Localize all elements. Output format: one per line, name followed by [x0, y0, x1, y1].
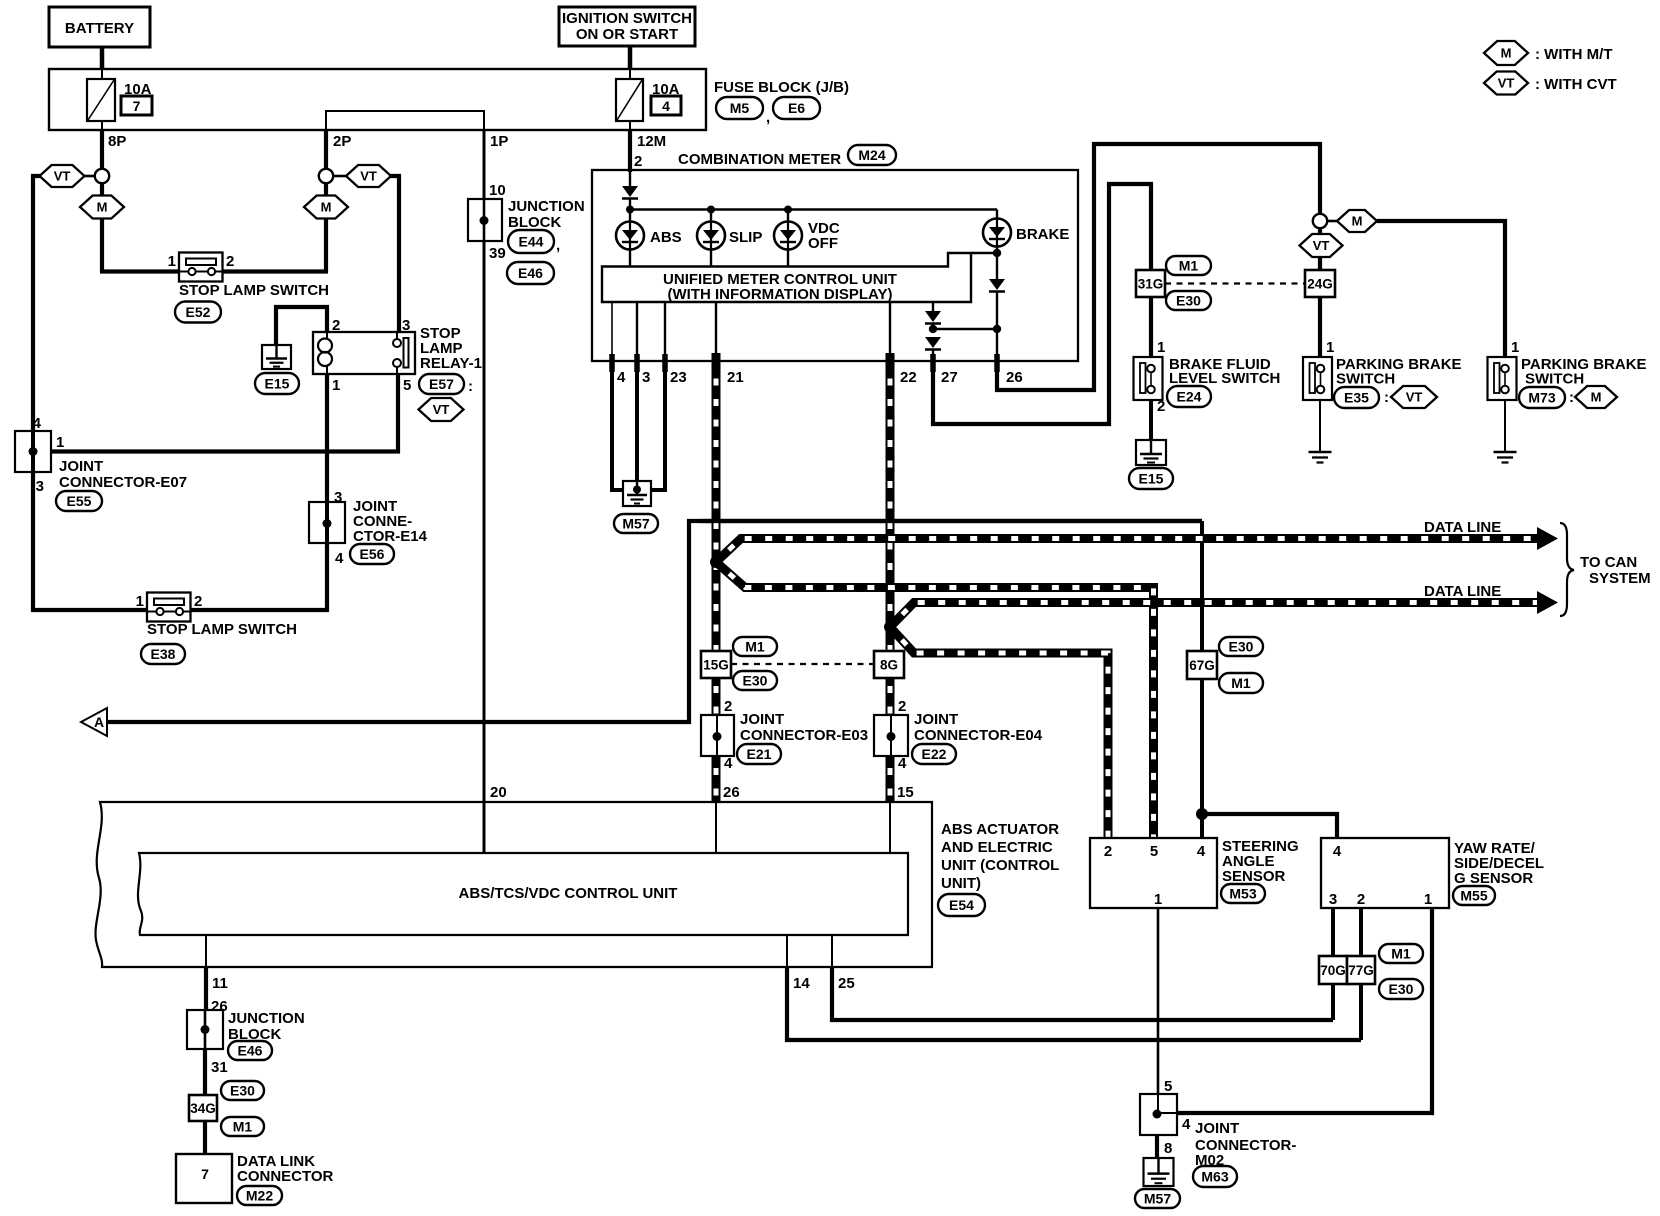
wire A arrow line	[106, 521, 1202, 722]
junction block E44 E46 1P	[468, 199, 502, 241]
svg-text:E54: E54	[949, 897, 974, 913]
svg-text:2: 2	[1357, 891, 1365, 908]
stop lamp switch E52	[179, 253, 223, 282]
ground M73	[1494, 451, 1517, 454]
svg-text:E56: E56	[360, 546, 385, 562]
fuse link 34G	[189, 1095, 217, 1121]
connector E35	[1334, 387, 1379, 408]
svg-text:2: 2	[332, 317, 340, 334]
svg-text:VT: VT	[54, 169, 71, 184]
svg-text:M55: M55	[1460, 888, 1487, 904]
wire meter pin 4 to ground M57	[612, 361, 624, 490]
svg-text:26: 26	[1006, 369, 1023, 386]
svg-text:3: 3	[642, 369, 650, 386]
svg-text:BATTERY: BATTERY	[65, 20, 134, 37]
svg-text:VT: VT	[360, 169, 377, 184]
svg-text:4: 4	[617, 369, 626, 386]
wire M branch to parking brake switch M73	[1377, 221, 1505, 364]
connector E30 67G	[1219, 637, 1263, 656]
svg-text:M5: M5	[730, 100, 750, 116]
fuse link 67G	[1187, 651, 1217, 679]
svg-text:M: M	[1352, 214, 1363, 229]
arrow A to other sheet	[81, 708, 107, 736]
tag M M73	[1575, 386, 1617, 408]
wire branch to yaw rate sensor pin 4	[1202, 814, 1337, 838]
svg-text:3: 3	[402, 317, 410, 334]
ABS/TCS/VDC control unit box	[138, 853, 908, 935]
svg-text:M: M	[97, 200, 108, 215]
svg-text:4: 4	[1197, 843, 1206, 860]
svg-text:CTOR-E14: CTOR-E14	[353, 528, 428, 545]
svg-text:STOP LAMP SWITCH: STOP LAMP SWITCH	[147, 621, 297, 638]
wire meter pin 27 to 31G brake fluid level switch	[933, 184, 1151, 424]
svg-text::: :	[468, 378, 473, 395]
fuse link 77G	[1347, 956, 1375, 984]
connector M73	[1519, 387, 1565, 408]
ground E35	[1309, 451, 1332, 454]
svg-text:E30: E30	[1389, 981, 1414, 997]
svg-text:70G: 70G	[1320, 963, 1346, 978]
svg-text:7: 7	[133, 98, 141, 114]
connector E46	[507, 262, 554, 284]
fuse link 8G	[874, 651, 904, 678]
svg-text:DATA LINE: DATA LINE	[1424, 583, 1501, 600]
wire meter pin 23 to ground M57	[650, 361, 665, 490]
connector E30 34G	[221, 1081, 264, 1100]
svg-text:8P: 8P	[108, 133, 126, 150]
svg-text:4: 4	[1182, 1116, 1191, 1133]
wire unified unit pin 3	[636, 302, 638, 361]
svg-text:CONNECTOR-E03: CONNECTOR-E03	[740, 727, 868, 744]
lamp VDC OFF warning	[787, 210, 789, 223]
svg-text:(WITH INFORMATION DISPLAY): (WITH INFORMATION DISPLAY)	[668, 286, 893, 303]
svg-text:IGNITION SWITCH: IGNITION SWITCH	[562, 10, 692, 27]
connector M5	[716, 97, 763, 119]
svg-text:E52: E52	[186, 304, 211, 320]
connector E57	[419, 374, 464, 394]
tag M parking brake	[1337, 210, 1377, 232]
connector E30 15G	[733, 671, 777, 690]
svg-text:BLOCK: BLOCK	[508, 214, 561, 231]
wire pin 20 inside ABS box	[483, 802, 486, 853]
stop lamp switch E38	[147, 593, 191, 622]
fuse link 24G	[1305, 270, 1335, 297]
wire diode link	[933, 328, 997, 330]
svg-text:8: 8	[1164, 1140, 1172, 1157]
node steering sensor pin 4	[1196, 808, 1208, 820]
data line lower to CAN	[890, 603, 1540, 628]
node bus VDC	[784, 206, 792, 214]
svg-text:: WITH M/T: : WITH M/T	[1535, 46, 1612, 63]
svg-text:E6: E6	[788, 100, 805, 116]
svg-text:G SENSOR: G SENSOR	[1454, 870, 1533, 887]
wire ABS pin 11 to junction block E46	[205, 935, 207, 967]
svg-text:1: 1	[1157, 339, 1165, 356]
svg-text:JUNCTION: JUNCTION	[508, 198, 585, 215]
svg-text:20: 20	[490, 784, 507, 801]
svg-text:SYSTEM: SYSTEM	[1589, 570, 1651, 587]
svg-text:4: 4	[33, 415, 42, 432]
wire unified unit pin 23	[664, 302, 666, 361]
ground E15 relay	[262, 345, 291, 369]
dashed link 31G-24G	[1165, 282, 1305, 284]
svg-text:5: 5	[1150, 843, 1158, 860]
connector E55	[56, 491, 102, 511]
svg-text:2: 2	[1104, 843, 1112, 860]
fuse link 31G	[1136, 270, 1165, 297]
lamp SLIP warning	[710, 210, 712, 223]
svg-text:E35: E35	[1344, 390, 1369, 406]
battery B1	[49, 7, 150, 47]
svg-text:M: M	[321, 200, 332, 215]
svg-text:VT: VT	[433, 402, 450, 417]
svg-text:4: 4	[724, 755, 733, 772]
svg-text:VT: VT	[1498, 76, 1515, 91]
data line branch to steering sensor pin 5	[716, 562, 1154, 838]
svg-text:M1: M1	[233, 1119, 253, 1135]
svg-text:,: ,	[766, 109, 770, 126]
connector E21	[737, 744, 781, 764]
meter pin stubs	[609, 354, 615, 372]
wire 67G line down to steering angle sensor pin 4	[1200, 521, 1204, 838]
svg-text:1: 1	[56, 434, 64, 451]
wire junction bus 2P-1P inside fuse block	[326, 111, 484, 130]
fuse link 15G	[701, 651, 731, 678]
tag M with MT 2P	[304, 196, 348, 219]
wire meter pin 3 to ground M57	[635, 361, 639, 482]
svg-text:E38: E38	[151, 646, 176, 662]
wire 8P to stop lamp switch E52 pin 1	[100, 269, 179, 273]
svg-text:M1: M1	[1391, 946, 1411, 962]
wire connector circle to parking brake switch E35	[1318, 228, 1322, 364]
wire relay pin 1 to joint connector E14 pin 3	[325, 374, 329, 502]
svg-text:4: 4	[898, 755, 907, 772]
svg-text:2: 2	[634, 153, 642, 170]
svg-text:26: 26	[723, 784, 740, 801]
svg-text:UNIT): UNIT)	[941, 875, 981, 892]
svg-text:39: 39	[489, 245, 506, 262]
fuse F2 10A	[616, 79, 643, 121]
fuse link 70G	[1319, 956, 1347, 984]
tag VT relay	[419, 398, 464, 421]
tag VT with CVT 8P	[40, 165, 85, 187]
svg-text:E30: E30	[230, 1083, 255, 1099]
svg-text:E30: E30	[1229, 639, 1254, 655]
svg-text:JOINT: JOINT	[740, 711, 784, 728]
wire 34G to data link connector	[203, 1121, 207, 1154]
dashed link 15G-8G	[731, 663, 874, 665]
svg-text:M1: M1	[1179, 258, 1199, 274]
wire meter lamp bus	[630, 208, 997, 210]
connector E30 yaw	[1379, 979, 1423, 999]
wire pin 26 inside ABS box	[715, 802, 717, 853]
wire 1P to ABS pin 20	[483, 130, 486, 853]
svg-text:27: 27	[941, 369, 958, 386]
wire VT 8P down to joint connector E07 pin 4	[33, 176, 40, 431]
svg-text:1: 1	[136, 593, 144, 610]
ground E15 brake fluid	[1136, 440, 1166, 465]
data line vertical from meter pin 21	[712, 361, 721, 802]
svg-text:JOINT: JOINT	[914, 711, 958, 728]
svg-text:2: 2	[194, 593, 202, 610]
connector M1 34G	[221, 1117, 264, 1136]
svg-text:VT: VT	[1313, 238, 1330, 253]
svg-text:M57: M57	[1144, 1191, 1171, 1207]
wire unified unit pin 22	[889, 302, 891, 361]
connector E15 relay	[255, 373, 299, 394]
connector M63	[1193, 1166, 1237, 1187]
svg-text:TO CAN: TO CAN	[1580, 554, 1637, 571]
connector circle 8P	[95, 169, 109, 183]
svg-text:E46: E46	[238, 1043, 263, 1059]
steering angle sensor M53	[1090, 838, 1217, 908]
svg-text:,: ,	[556, 237, 560, 254]
arrowhead data line upper	[1537, 527, 1558, 550]
svg-text:M22: M22	[246, 1188, 273, 1204]
tag VT with CVT 2P	[346, 165, 391, 187]
svg-text:: WITH CVT: : WITH CVT	[1535, 76, 1617, 93]
svg-text:E30: E30	[1176, 293, 1201, 309]
connector M22	[237, 1186, 282, 1205]
data link connector M22	[176, 1154, 232, 1203]
svg-text:UNIT (CONTROL: UNIT (CONTROL	[941, 857, 1059, 874]
svg-text:SWITCH: SWITCH	[1525, 371, 1584, 388]
svg-text:M24: M24	[858, 147, 885, 163]
svg-text::: :	[1569, 389, 1574, 406]
svg-text:2: 2	[724, 698, 732, 715]
svg-text:M1: M1	[745, 639, 765, 655]
svg-text:M73: M73	[1528, 390, 1555, 406]
wire brake lamp to diode chain	[996, 246, 998, 258]
svg-text:77G: 77G	[1348, 963, 1374, 978]
svg-text:12M: 12M	[637, 133, 666, 150]
svg-text:1: 1	[1326, 339, 1334, 356]
svg-text:4: 4	[662, 98, 670, 114]
wire A line over crossing	[700, 519, 1202, 523]
wire VT branch from 8P connector	[85, 175, 96, 178]
svg-text:E44: E44	[519, 234, 544, 250]
node brake diode top	[993, 249, 1001, 257]
svg-text:1: 1	[168, 253, 176, 270]
wire M73 switch to ground	[1504, 393, 1506, 452]
tag VT parking brake	[1300, 234, 1343, 257]
svg-text:FUSE BLOCK (J/B): FUSE BLOCK (J/B)	[714, 79, 849, 96]
connector E44	[508, 230, 554, 253]
connector M1 67G	[1219, 673, 1263, 693]
svg-text:25: 25	[838, 975, 855, 992]
lamp BRAKE warning	[996, 210, 998, 220]
svg-text:CONNECTOR-E04: CONNECTOR-E04	[914, 727, 1043, 744]
svg-text:31: 31	[211, 1059, 228, 1076]
svg-text:15: 15	[897, 784, 914, 801]
wire E35 switch to ground	[1319, 393, 1321, 452]
wire steering sensor pin 1 to joint connector M02 pin 5	[1157, 908, 1160, 1094]
svg-text:ON OR START: ON OR START	[576, 26, 678, 43]
diode D1 meter feed	[622, 186, 638, 197]
svg-text:67G: 67G	[1189, 658, 1215, 673]
connector circle 2P	[319, 169, 333, 183]
connector M24	[848, 145, 896, 165]
svg-text:3: 3	[334, 489, 342, 506]
connector M1 15G	[733, 637, 777, 656]
svg-text:OFF: OFF	[808, 235, 838, 252]
svg-text:24G: 24G	[1307, 276, 1333, 291]
svg-text:JUNCTION: JUNCTION	[228, 1010, 305, 1027]
svg-text:E30: E30	[743, 673, 768, 689]
svg-text:E55: E55	[67, 493, 92, 509]
diode D4 pin27 chain lower	[925, 337, 941, 348]
svg-text:M1: M1	[1231, 675, 1251, 691]
svg-text:2P: 2P	[333, 133, 351, 150]
svg-text:10: 10	[489, 182, 506, 199]
svg-text:4: 4	[335, 550, 344, 567]
node bus SLIP	[707, 206, 715, 214]
svg-text:21: 21	[727, 369, 744, 386]
svg-text:1: 1	[1511, 339, 1519, 356]
svg-text:3: 3	[36, 478, 44, 495]
wire pin 15 inside ABS box	[889, 802, 891, 853]
connector E30 31G	[1166, 291, 1211, 310]
connector E22	[912, 744, 956, 764]
svg-text:CONNECTOR-E07: CONNECTOR-E07	[59, 474, 187, 491]
svg-text:DATA LINE: DATA LINE	[1424, 519, 1501, 536]
svg-text:M: M	[1591, 390, 1602, 405]
svg-text:1P: 1P	[490, 133, 508, 150]
wire stop lamp switch E38 pin 2 to joint connector E14 pin 4	[189, 543, 327, 610]
node diode link 27	[929, 325, 937, 333]
svg-text:SENSOR: SENSOR	[1222, 868, 1286, 885]
connector M1 31G	[1166, 256, 1211, 275]
svg-text::: :	[1384, 389, 1389, 406]
svg-text:22: 22	[900, 369, 917, 386]
svg-text:1: 1	[332, 377, 340, 394]
svg-text:31G: 31G	[1138, 276, 1164, 291]
svg-text:8G: 8G	[880, 657, 898, 672]
wire yaw sensor pin 2 through 77G	[1359, 908, 1363, 1040]
wire ABS pin 14 to 77G yaw sensor pin 2	[786, 935, 788, 967]
wire 2P feed	[324, 130, 328, 272]
connector circle parking brake branch	[1313, 214, 1327, 228]
wire stop lamp switch E52 pin 2 to 2P	[223, 269, 329, 273]
svg-text:M57: M57	[622, 516, 649, 532]
ignition switch power source	[559, 7, 695, 46]
svg-text:SWITCH: SWITCH	[1336, 371, 1395, 388]
svg-text:LEVEL SWITCH: LEVEL SWITCH	[1169, 370, 1280, 387]
brace to CAN system	[1560, 523, 1574, 616]
svg-text:JOINT: JOINT	[59, 458, 103, 475]
svg-text:1: 1	[1424, 891, 1432, 908]
svg-text:7: 7	[201, 1166, 209, 1182]
svg-text:E57: E57	[429, 376, 454, 392]
svg-text:5: 5	[1164, 1078, 1172, 1095]
svg-text:14: 14	[793, 975, 810, 992]
wire battery to fuse block	[100, 47, 105, 69]
tag M with MT 8P	[80, 196, 124, 219]
wire VT 2P to stop lamp relay pin 3	[391, 176, 400, 332]
svg-text:34G: 34G	[190, 1101, 216, 1116]
yaw rate side decel G sensor M55	[1321, 838, 1449, 908]
svg-text:ABS ACTUATOR: ABS ACTUATOR	[941, 821, 1059, 838]
fuse block J/B	[49, 69, 706, 130]
svg-text:STOP LAMP SWITCH: STOP LAMP SWITCH	[179, 282, 329, 299]
svg-text:1: 1	[1154, 891, 1162, 908]
data line branch to steering sensor pin 2	[890, 627, 1108, 838]
tag VT legend	[1484, 72, 1528, 95]
svg-text:AND ELECTRIC: AND ELECTRIC	[941, 839, 1053, 856]
connector E15 brake fluid	[1129, 468, 1173, 489]
svg-text:E15: E15	[1139, 471, 1164, 487]
connector M1 yaw	[1379, 944, 1423, 963]
junction dot data line 21	[710, 556, 722, 568]
svg-text:2: 2	[226, 253, 234, 270]
connector E24	[1167, 386, 1211, 407]
connector E6	[773, 97, 820, 119]
fuse F1 10A	[87, 79, 115, 121]
wire pin 25 inside ABS box	[831, 935, 833, 967]
wire junction block E46 to 34G	[203, 1049, 207, 1097]
svg-text:ABS/TCS/VDC CONTROL UNIT: ABS/TCS/VDC CONTROL UNIT	[459, 885, 678, 902]
svg-text:2: 2	[1157, 398, 1165, 415]
diode D2 brake chain	[989, 279, 1005, 290]
wire joint connector E07 pin 3 to stop lamp switch E38 pin 1	[33, 472, 147, 610]
wire VT branch from 2P connector	[333, 175, 346, 178]
arrowhead data line lower	[1537, 591, 1558, 614]
connector E56	[350, 544, 394, 564]
svg-text:M53: M53	[1229, 886, 1256, 902]
svg-text:BRAKE: BRAKE	[1016, 226, 1069, 243]
ABS actuator and electric unit box E54	[96, 802, 932, 967]
svg-text:2: 2	[898, 698, 906, 715]
wire yaw sensor pin 3 through 70G	[1331, 908, 1335, 1020]
data line vertical from meter pin 22	[886, 361, 895, 802]
wire ABS pin 25 to 70G yaw sensor pin 3	[831, 935, 833, 967]
wire joint connector E07 pin 1 to relay pin 5	[51, 374, 398, 452]
tag VT E35	[1391, 386, 1437, 408]
combination meter M24 box	[592, 170, 1078, 361]
wire 12M to combination meter	[628, 130, 632, 172]
wire brake chain to pin 26	[996, 329, 998, 361]
svg-text:11: 11	[212, 975, 228, 992]
connector M55	[1453, 886, 1495, 905]
svg-text:COMBINATION METER: COMBINATION METER	[678, 151, 841, 168]
diode D3 pin27 chain	[932, 302, 934, 311]
ground M57 bottom	[1144, 1158, 1174, 1186]
svg-text:E22: E22	[922, 746, 947, 762]
connector M57 meter	[614, 514, 658, 533]
data line upper to CAN	[716, 539, 1540, 563]
wire relay pin 2 to ground E15	[276, 307, 327, 345]
wire ignition switch to fuse block	[628, 46, 633, 69]
svg-text:23: 23	[670, 369, 687, 386]
stop lamp relay-1 E57	[313, 332, 415, 374]
wire yaw sensor pin 1 to joint connector M02 pin 4	[1177, 908, 1432, 1113]
lamp ABS warning	[629, 210, 631, 223]
node diode link 26	[993, 325, 1001, 333]
wire M branch link	[1327, 220, 1337, 223]
svg-text:3: 3	[1329, 891, 1337, 908]
svg-text:CONNECTOR: CONNECTOR	[237, 1168, 334, 1185]
joint connector E07	[15, 431, 51, 472]
svg-text:15G: 15G	[703, 657, 729, 672]
wire unified unit to brake diode node	[971, 252, 997, 254]
wire pin 11 inside ABS box	[205, 935, 207, 967]
svg-text:E24: E24	[1177, 389, 1202, 405]
svg-text:4: 4	[1333, 843, 1342, 860]
connector E38	[141, 644, 185, 664]
junction dot data line 22	[884, 621, 896, 633]
svg-text:E15: E15	[265, 376, 290, 392]
svg-text:A: A	[94, 714, 104, 730]
